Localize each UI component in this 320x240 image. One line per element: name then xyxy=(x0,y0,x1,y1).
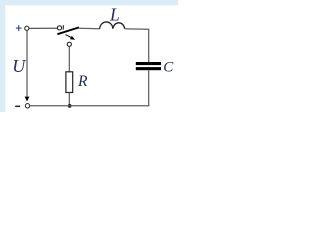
svg-text:R: R xyxy=(77,73,88,90)
svg-text:U: U xyxy=(12,56,26,76)
svg-text:C: C xyxy=(163,59,174,75)
svg-text:L: L xyxy=(109,4,120,24)
